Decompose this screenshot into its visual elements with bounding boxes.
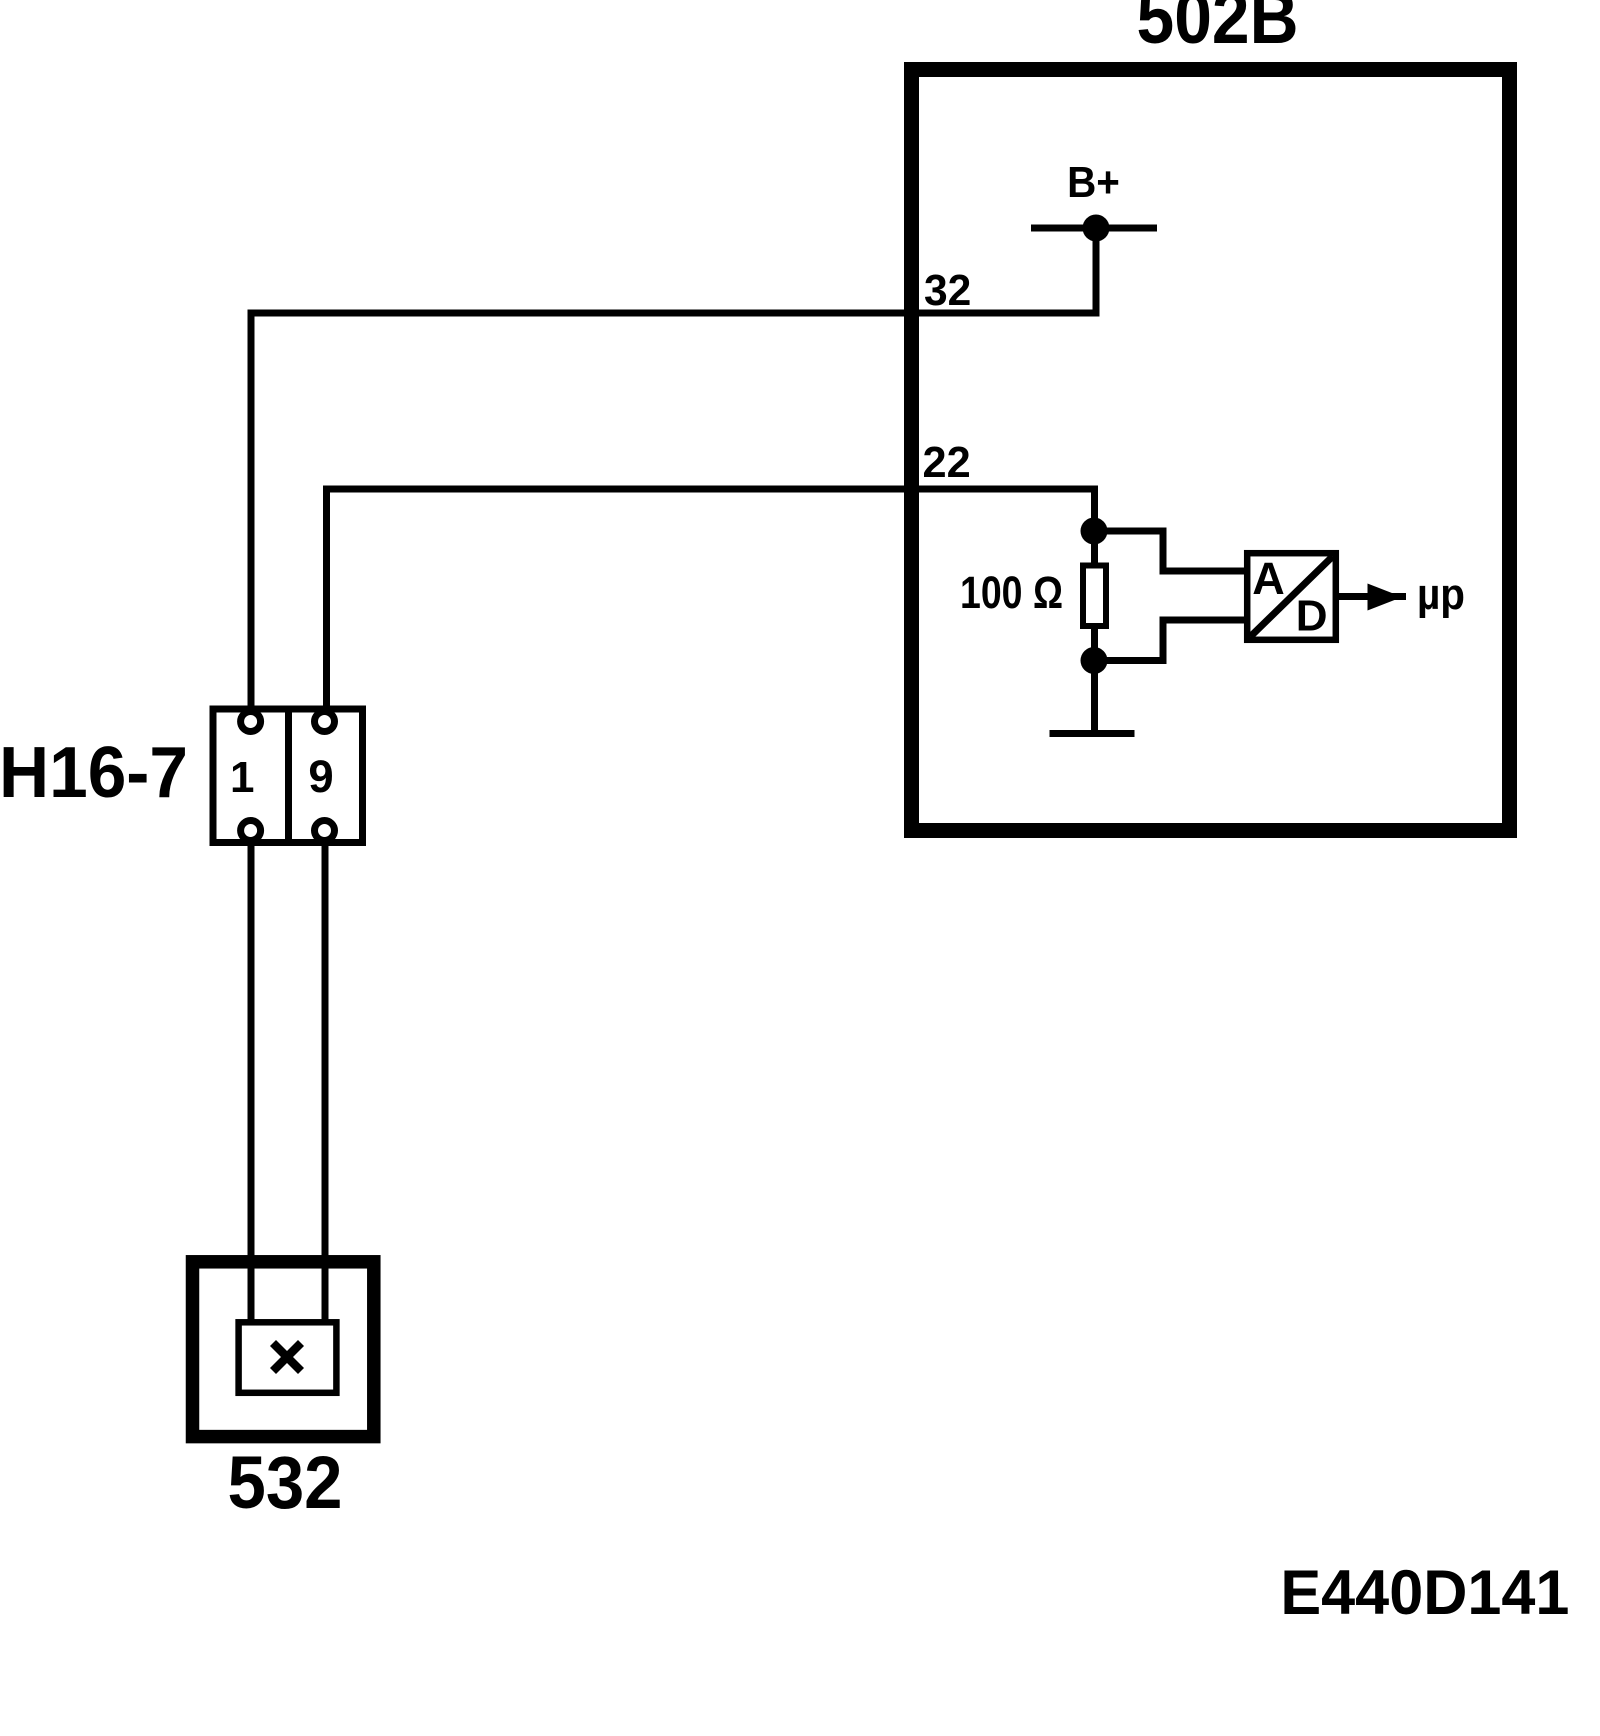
connector H16-7 box [213,709,363,843]
ground bar [1050,730,1135,737]
svg-text:D: D [1296,592,1328,641]
wire pin22 to resistor top [327,489,1095,712]
wire A/D output [1339,593,1406,600]
wire bottom node to ground [1091,661,1098,733]
svg-text:100 Ω: 100 Ω [960,567,1063,618]
wire pin1 to lamp [248,846,255,1322]
wire top node to resistor [1091,531,1098,566]
wire top node to A/D upper input [1095,531,1246,571]
bulb unit 532 outer box [193,1262,374,1437]
node bottom junction dot [1081,647,1108,674]
svg-text:502B: 502B [1137,0,1299,59]
bulb element box [239,1322,337,1393]
svg-text:B+: B+ [1067,158,1120,207]
svg-text:E440D141: E440D141 [1280,1558,1569,1628]
control unit 502B box [912,70,1510,831]
svg-text:32: 32 [924,266,971,315]
node top junction dot [1081,518,1108,545]
svg-text:532: 532 [228,1441,343,1524]
B+ bar [1031,225,1157,232]
svg-text:9: 9 [308,751,333,802]
arrowhead to microprocessor [1368,584,1403,611]
svg-text:1: 1 [230,753,254,802]
svg-text:A: A [1252,553,1285,604]
wire bottom node to A/D lower input [1095,620,1246,661]
pin hole top-left [241,712,261,732]
A/D converter box [1247,553,1336,640]
node B+ dot [1083,215,1110,242]
svg-text:µp: µp [1417,570,1465,619]
svg-text:H16-7: H16-7 [0,733,188,813]
svg-text:22: 22 [923,438,971,487]
bulb X stroke 2 [273,1343,301,1371]
wire resistor to bottom node [1091,629,1098,661]
wire pin9 to lamp [322,846,329,1322]
pin hole bottom-right [315,821,335,841]
pin hole top-right [315,712,335,732]
pin hole bottom-left [241,821,261,841]
resistor 100 ohm [1083,566,1106,627]
bulb X stroke 1 [273,1343,301,1371]
A/D diagonal [1251,557,1333,637]
wire pin32 to B+ node [251,228,1096,712]
connector divider [285,706,292,847]
